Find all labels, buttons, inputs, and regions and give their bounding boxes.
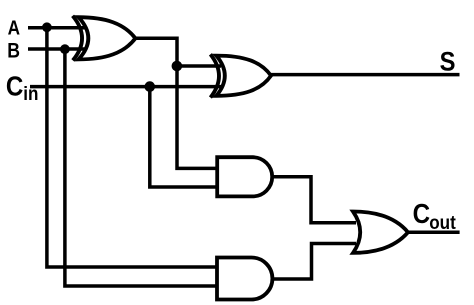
wire A branch down to AND2 <box>47 28 218 267</box>
svg-text:B: B <box>7 39 20 63</box>
svg-text:C: C <box>6 72 23 102</box>
wire input Cin <box>30 85 221 89</box>
xor-gate U1 (A xor B) <box>73 16 136 61</box>
wire Cin branch to AND1 <box>150 87 218 187</box>
wire node to XOR2 top input <box>177 64 221 68</box>
or-gate U5 (carry out) <box>353 212 408 253</box>
wire input A <box>28 26 86 30</box>
node A junction dot <box>42 22 52 32</box>
wire AND1 output to OR top input <box>272 177 356 223</box>
wire B branch down to AND2 <box>65 49 218 286</box>
wire S output <box>271 73 460 77</box>
wire Cout output <box>408 231 460 235</box>
wire AND2 output to OR bottom input <box>272 244 356 280</box>
svg-text:out: out <box>429 212 456 233</box>
node Cin junction dot <box>145 81 156 92</box>
svg-text:C: C <box>413 199 430 229</box>
wire input B <box>28 47 86 51</box>
wire XOR1 output to XOR2 and AND1 <box>135 38 218 168</box>
and-gate U3 (XOR1 out AND Cin) <box>217 157 272 196</box>
svg-text:in: in <box>23 83 38 104</box>
node B junction dot <box>60 44 70 54</box>
svg-text:A: A <box>8 16 20 39</box>
node XOR1-output junction dot <box>172 61 183 72</box>
xor-gate U2 (sum S) <box>210 54 271 97</box>
and-gate U4 (A AND B) <box>217 258 272 300</box>
svg-text:S: S <box>440 47 456 77</box>
